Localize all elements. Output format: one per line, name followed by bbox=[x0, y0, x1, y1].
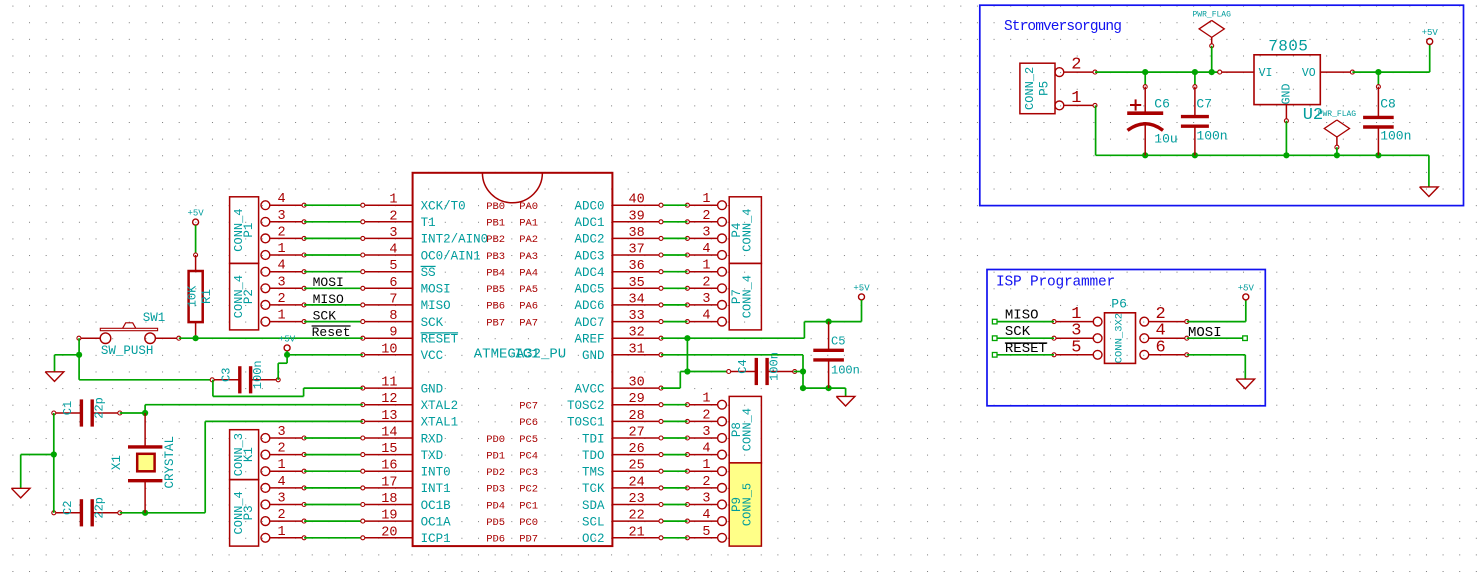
connector P8 (CONN_4) bbox=[729, 396, 761, 463]
connector P5 (CONN_2) bbox=[1020, 63, 1055, 113]
7805 VI pin bbox=[1220, 71, 1254, 73]
wire MISO bbox=[997, 321, 1054, 323]
wire AREF branch down to AVCC and C4 bbox=[686, 338, 688, 371]
svg-text:2: 2 bbox=[702, 209, 710, 224]
svg-text:30: 30 bbox=[629, 376, 645, 391]
svg-text:TXD: TXD bbox=[421, 449, 444, 463]
svg-text:PD5: PD5 bbox=[486, 517, 505, 529]
svg-text:23: 23 bbox=[629, 492, 645, 507]
svg-text:PB1: PB1 bbox=[486, 218, 505, 230]
svg-text:6: 6 bbox=[1156, 338, 1166, 357]
svg-text:PC0: PC0 bbox=[519, 517, 538, 529]
svg-text:SW1: SW1 bbox=[143, 311, 166, 325]
capacitor C7 100n bbox=[1194, 72, 1196, 87]
svg-text:33: 33 bbox=[629, 309, 645, 324]
capacitor C6 10u electrolytic bbox=[1144, 72, 1146, 87]
sheet box Stromversorgung bbox=[980, 5, 1464, 205]
svg-text:4: 4 bbox=[278, 259, 286, 274]
svg-text:OC0/AIN1: OC0/AIN1 bbox=[421, 249, 481, 263]
wire SW1 left to gnd and C3 bbox=[78, 338, 80, 355]
svg-text:C2: C2 bbox=[61, 501, 75, 515]
capacitor C4 100n bbox=[729, 371, 757, 373]
svg-text:PD2: PD2 bbox=[486, 467, 505, 479]
wires P4 to IC bbox=[661, 204, 687, 206]
svg-text:+5V: +5V bbox=[1238, 283, 1255, 293]
svg-text:26: 26 bbox=[629, 442, 645, 457]
svg-text:MOSI: MOSI bbox=[1188, 325, 1222, 341]
svg-text:16: 16 bbox=[381, 459, 397, 474]
svg-text:PB5: PB5 bbox=[486, 284, 505, 296]
svg-text:PA4: PA4 bbox=[519, 268, 538, 280]
svg-text:CRYSTAL: CRYSTAL bbox=[163, 436, 177, 489]
svg-text:PD1: PD1 bbox=[486, 450, 505, 462]
power +5V right of IC bbox=[859, 294, 865, 300]
svg-text:20: 20 bbox=[381, 525, 397, 540]
svg-text:PWR_FLAG: PWR_FLAG bbox=[1318, 110, 1357, 119]
connector P4 (CONN_4) bbox=[729, 197, 761, 264]
svg-text:INT0: INT0 bbox=[421, 466, 451, 480]
svg-text:P5: P5 bbox=[1038, 81, 1052, 96]
svg-text:PC7: PC7 bbox=[519, 401, 538, 413]
svg-text:PC1: PC1 bbox=[519, 500, 538, 512]
wire GND pin 31 to C4/C5 ground bbox=[661, 354, 803, 356]
svg-text:MOSI: MOSI bbox=[421, 283, 451, 297]
svg-text:4: 4 bbox=[278, 192, 286, 207]
svg-text:2: 2 bbox=[389, 209, 397, 224]
connector P1 (CONN_4) bbox=[230, 197, 259, 264]
svg-text:C4: C4 bbox=[736, 359, 750, 373]
svg-text:3: 3 bbox=[278, 425, 286, 440]
wire VO to +5V bbox=[1352, 71, 1429, 73]
capacitor C5 100n bbox=[813, 349, 844, 352]
svg-text:ADC1: ADC1 bbox=[574, 216, 604, 230]
svg-text:PC5: PC5 bbox=[519, 434, 538, 446]
svg-text:PA3: PA3 bbox=[519, 251, 538, 263]
capacitor C8 100n bbox=[1377, 72, 1379, 87]
svg-text:CONN_4: CONN_4 bbox=[740, 275, 754, 318]
svg-text:13: 13 bbox=[381, 409, 397, 424]
P6 left pins 1,3,5 bbox=[1054, 321, 1093, 323]
svg-text:PA2: PA2 bbox=[519, 234, 538, 246]
svg-text:2: 2 bbox=[702, 408, 710, 423]
svg-text:SCK: SCK bbox=[313, 308, 337, 323]
svg-text:P6: P6 bbox=[1111, 297, 1127, 312]
wires P1 to IC bbox=[304, 204, 363, 206]
svg-text:7805: 7805 bbox=[1268, 37, 1308, 55]
power +5V near C3 bbox=[284, 345, 290, 351]
svg-text:+5V: +5V bbox=[279, 334, 296, 344]
svg-text:22p: 22p bbox=[93, 497, 107, 519]
svg-text:3: 3 bbox=[278, 492, 286, 507]
ground near SW1 bbox=[45, 372, 64, 382]
power +5V output bbox=[1427, 39, 1433, 45]
svg-text:10: 10 bbox=[381, 342, 397, 357]
svg-text:C1: C1 bbox=[61, 401, 75, 415]
ground ISP bbox=[1236, 379, 1255, 389]
svg-text:2: 2 bbox=[278, 292, 286, 307]
capacitor C3 100n bbox=[212, 379, 240, 381]
svg-text:OC1B: OC1B bbox=[421, 499, 452, 513]
svg-text:VO: VO bbox=[1302, 67, 1316, 80]
svg-text:4: 4 bbox=[389, 243, 397, 258]
svg-text:17: 17 bbox=[381, 475, 397, 490]
svg-text:GND: GND bbox=[421, 382, 444, 396]
svg-text:CONN_2: CONN_2 bbox=[1023, 67, 1037, 110]
svg-text:VCC: VCC bbox=[421, 349, 444, 363]
wires P2 to IC bbox=[304, 271, 363, 273]
ground of power section bbox=[1428, 155, 1430, 187]
svg-text:100n: 100n bbox=[831, 364, 860, 378]
svg-text:CONN_4: CONN_4 bbox=[740, 208, 754, 251]
svg-text:4: 4 bbox=[702, 508, 710, 523]
svg-text:2: 2 bbox=[278, 225, 286, 240]
hierarchical label MISO bbox=[992, 319, 997, 324]
wire P5 pin2 to VI rail bbox=[1095, 71, 1220, 73]
svg-text:PD4: PD4 bbox=[486, 500, 505, 512]
wire reset net SW1 to IC pin 9 bbox=[179, 337, 363, 339]
capacitor C1 22p bbox=[54, 412, 82, 414]
svg-text:PC4: PC4 bbox=[519, 450, 538, 462]
svg-text:PB4: PB4 bbox=[486, 268, 505, 280]
svg-text:XTAL2: XTAL2 bbox=[421, 399, 459, 413]
svg-text:5: 5 bbox=[1071, 338, 1081, 357]
wire XTAL1 net bbox=[142, 510, 148, 516]
7805 VO pin bbox=[1320, 71, 1352, 73]
hierarchical label SCK bbox=[992, 336, 997, 341]
svg-text:100n: 100n bbox=[1380, 128, 1411, 143]
wire C3 left to IC GND pin 11 bbox=[212, 380, 214, 397]
svg-text:35: 35 bbox=[629, 276, 645, 291]
svg-text:2: 2 bbox=[278, 442, 286, 457]
svg-text:3: 3 bbox=[702, 292, 710, 307]
svg-text:R1: R1 bbox=[200, 289, 214, 304]
svg-text:1: 1 bbox=[702, 259, 710, 274]
svg-text:SS: SS bbox=[421, 266, 436, 280]
wire +5V down to C3 right pin bbox=[286, 355, 288, 363]
svg-text:IC1: IC1 bbox=[514, 347, 539, 363]
svg-text:38: 38 bbox=[629, 226, 645, 241]
svg-text:SCK: SCK bbox=[421, 316, 444, 330]
svg-text:GND: GND bbox=[1281, 84, 1294, 105]
svg-text:19: 19 bbox=[381, 509, 397, 524]
svg-text:SCL: SCL bbox=[582, 515, 605, 529]
svg-text:OC2: OC2 bbox=[582, 532, 605, 546]
svg-text:21: 21 bbox=[629, 525, 645, 540]
ground right of C5 bbox=[836, 396, 855, 406]
wires P8 to IC bbox=[661, 404, 687, 406]
svg-text:PB6: PB6 bbox=[486, 301, 505, 313]
svg-text:6: 6 bbox=[389, 276, 397, 291]
connector P3 (CONN_4) bbox=[230, 480, 259, 546]
svg-text:1: 1 bbox=[702, 458, 710, 473]
svg-text:22p: 22p bbox=[93, 397, 107, 419]
svg-text:ADC0: ADC0 bbox=[574, 200, 604, 214]
connector K1 (CONN_3) bbox=[230, 430, 259, 480]
svg-text:P3: P3 bbox=[242, 505, 256, 520]
svg-text:PD7: PD7 bbox=[519, 534, 538, 546]
svg-text:SDA: SDA bbox=[582, 499, 605, 513]
svg-text:+5V: +5V bbox=[1422, 28, 1439, 38]
wire XTAL2 net bbox=[142, 410, 148, 416]
svg-text:28: 28 bbox=[629, 409, 645, 424]
connector P2 (CONN_4) bbox=[230, 263, 259, 330]
svg-text:XCK/T0: XCK/T0 bbox=[421, 200, 466, 214]
svg-text:ADC2: ADC2 bbox=[574, 233, 604, 247]
svg-text:1: 1 bbox=[278, 309, 286, 324]
wires K1 to IC bbox=[304, 437, 363, 439]
svg-text:5: 5 bbox=[702, 525, 710, 540]
svg-text:5: 5 bbox=[389, 259, 397, 274]
svg-text:TDI: TDI bbox=[582, 432, 605, 446]
svg-text:39: 39 bbox=[629, 209, 645, 224]
svg-text:PA7: PA7 bbox=[519, 317, 538, 329]
svg-text:2: 2 bbox=[278, 508, 286, 523]
switch SW1 SW_PUSH bbox=[100, 333, 111, 344]
wire P6 pin4 MOSI bbox=[1187, 337, 1243, 339]
svg-text:ISP Programmer: ISP Programmer bbox=[996, 274, 1115, 290]
svg-text:1: 1 bbox=[389, 193, 397, 208]
svg-text:2: 2 bbox=[1071, 56, 1081, 75]
wire C2 to crystal bbox=[120, 512, 145, 514]
svg-text:36: 36 bbox=[629, 259, 645, 274]
wire C1 to crystal bbox=[120, 412, 145, 414]
power +5V above R1 bbox=[193, 219, 199, 225]
svg-text:PA5: PA5 bbox=[519, 284, 538, 296]
svg-text:29: 29 bbox=[629, 392, 645, 407]
svg-text:ADC5: ADC5 bbox=[574, 283, 604, 297]
P6 right pins 2,4,6 bbox=[1149, 321, 1187, 323]
svg-text:3: 3 bbox=[702, 425, 710, 440]
wire +5V to VCC pin 10 bbox=[286, 351, 288, 355]
svg-text:PA6: PA6 bbox=[519, 301, 538, 313]
svg-text:+5V: +5V bbox=[853, 283, 870, 293]
wire C1/C2 left vertical to gnd bbox=[53, 413, 55, 513]
svg-text:11: 11 bbox=[381, 376, 397, 391]
hierarchical label RESET bbox=[992, 353, 997, 358]
svg-text:TCK: TCK bbox=[582, 482, 605, 496]
svg-text:C7: C7 bbox=[1196, 96, 1212, 111]
svg-text:PD0: PD0 bbox=[486, 434, 505, 446]
svg-text:AREF: AREF bbox=[574, 333, 604, 347]
svg-text:1: 1 bbox=[702, 392, 710, 407]
svg-text:VI: VI bbox=[1259, 67, 1273, 80]
svg-text:7: 7 bbox=[389, 292, 397, 307]
svg-text:AVCC: AVCC bbox=[574, 382, 604, 396]
svg-text:10u: 10u bbox=[1154, 132, 1177, 147]
svg-text:C3: C3 bbox=[219, 368, 233, 382]
svg-text:T1: T1 bbox=[421, 216, 436, 230]
svg-text:MOSI: MOSI bbox=[313, 275, 344, 290]
svg-text:4: 4 bbox=[278, 475, 286, 490]
junction R1/reset wire bbox=[193, 335, 199, 341]
svg-text:TOSC1: TOSC1 bbox=[567, 416, 605, 430]
svg-text:12: 12 bbox=[381, 392, 397, 407]
svg-text:15: 15 bbox=[381, 442, 397, 457]
svg-text:P1: P1 bbox=[242, 223, 256, 238]
svg-text:PD6: PD6 bbox=[486, 534, 505, 546]
svg-text:31: 31 bbox=[629, 342, 645, 357]
svg-text:SW_PUSH: SW_PUSH bbox=[101, 344, 154, 358]
svg-text:K1: K1 bbox=[242, 447, 256, 462]
svg-text:34: 34 bbox=[629, 292, 645, 307]
connector P6 CONN_3X2 bbox=[1105, 313, 1136, 364]
connector P7 (CONN_4) bbox=[729, 263, 761, 330]
svg-text:TOSC2: TOSC2 bbox=[567, 399, 605, 413]
wire P5 pin1 to gnd rail bbox=[1095, 71, 1097, 73]
svg-text:PB0: PB0 bbox=[486, 201, 505, 213]
svg-text:ADC3: ADC3 bbox=[574, 249, 604, 263]
svg-text:25: 25 bbox=[629, 459, 645, 474]
wires P9 to IC bbox=[661, 470, 687, 472]
IC ATMEGA32_PU body bbox=[413, 173, 613, 546]
svg-text:2: 2 bbox=[702, 475, 710, 490]
svg-text:2: 2 bbox=[702, 275, 710, 290]
svg-text:CONN_3X2: CONN_3X2 bbox=[1114, 313, 1126, 363]
svg-text:3: 3 bbox=[702, 225, 710, 240]
svg-text:40: 40 bbox=[629, 193, 645, 208]
crystal X1 bbox=[144, 413, 146, 447]
svg-text:4: 4 bbox=[702, 442, 710, 457]
svg-text:14: 14 bbox=[381, 426, 397, 441]
PWR_FLAG on input rail bbox=[1199, 20, 1224, 37]
svg-text:PB3: PB3 bbox=[486, 251, 505, 263]
svg-text:MISO: MISO bbox=[313, 292, 344, 307]
svg-text:PB7: PB7 bbox=[486, 317, 505, 329]
svg-text:X1: X1 bbox=[110, 455, 124, 470]
svg-text:PD3: PD3 bbox=[486, 484, 505, 496]
svg-text:Stromversorgung: Stromversorgung bbox=[1004, 19, 1121, 35]
svg-text:8: 8 bbox=[389, 309, 397, 324]
7805 GND pin bbox=[1285, 105, 1287, 121]
svg-text:RXD: RXD bbox=[421, 432, 444, 446]
svg-text:PA1: PA1 bbox=[519, 218, 538, 230]
svg-text:MISO: MISO bbox=[421, 299, 451, 313]
svg-text:1: 1 bbox=[278, 242, 286, 257]
svg-text:RESET: RESET bbox=[421, 333, 459, 347]
svg-text:ICP1: ICP1 bbox=[421, 532, 451, 546]
svg-text:PC3: PC3 bbox=[519, 467, 538, 479]
capacitor C2 22p bbox=[54, 512, 82, 514]
svg-text:GND: GND bbox=[582, 349, 605, 363]
svg-text:TMS: TMS bbox=[582, 466, 605, 480]
svg-text:1: 1 bbox=[278, 458, 286, 473]
svg-text:CONN_4: CONN_4 bbox=[740, 408, 754, 451]
svg-text:PC2: PC2 bbox=[519, 484, 538, 496]
svg-text:TDO: TDO bbox=[582, 449, 605, 463]
svg-text:ADC6: ADC6 bbox=[574, 299, 604, 313]
wires P7 to IC bbox=[661, 271, 687, 273]
wire RESET bbox=[997, 354, 1054, 356]
svg-text:9: 9 bbox=[389, 326, 397, 341]
IC right pins 21-40 bbox=[612, 204, 661, 206]
svg-text:XTAL1: XTAL1 bbox=[421, 416, 459, 430]
svg-text:24: 24 bbox=[629, 475, 645, 490]
svg-text:1: 1 bbox=[702, 192, 710, 207]
svg-text:+5V: +5V bbox=[187, 209, 204, 219]
svg-text:3: 3 bbox=[278, 275, 286, 290]
svg-text:PA0: PA0 bbox=[519, 201, 538, 213]
svg-text:1: 1 bbox=[278, 525, 286, 540]
svg-text:INT2/AIN0: INT2/AIN0 bbox=[421, 233, 489, 247]
hierarchical label MOSI bbox=[1243, 336, 1248, 341]
wire P6 pin6 to gnd bbox=[1187, 354, 1246, 356]
svg-text:PB2: PB2 bbox=[486, 234, 505, 246]
svg-text:37: 37 bbox=[629, 243, 645, 258]
PWR_FLAG on gnd rail bbox=[1324, 120, 1349, 137]
svg-text:C6: C6 bbox=[1154, 96, 1170, 111]
wire P6 pin2 to +5V bbox=[1187, 321, 1246, 323]
svg-text:CONN_5: CONN_5 bbox=[740, 483, 754, 526]
svg-text:3: 3 bbox=[278, 209, 286, 224]
wire SCK bbox=[997, 337, 1054, 339]
svg-text:3: 3 bbox=[702, 492, 710, 507]
wires P3 to IC bbox=[304, 487, 363, 489]
regulator U2 7805 bbox=[1254, 55, 1320, 105]
IC left pins 1-20 bbox=[363, 204, 413, 206]
svg-text:INT1: INT1 bbox=[421, 482, 451, 496]
svg-text:100n: 100n bbox=[767, 352, 781, 381]
svg-text:22: 22 bbox=[629, 509, 645, 524]
svg-text:C5: C5 bbox=[831, 334, 845, 348]
svg-text:3: 3 bbox=[389, 226, 397, 241]
svg-text:18: 18 bbox=[381, 492, 397, 507]
connector P9 (CONN_5) bbox=[729, 463, 761, 546]
svg-text:ADC7: ADC7 bbox=[574, 316, 604, 330]
svg-text:4: 4 bbox=[702, 242, 710, 257]
svg-text:C8: C8 bbox=[1380, 96, 1396, 111]
svg-text:ADC4: ADC4 bbox=[574, 266, 604, 280]
svg-text:P2: P2 bbox=[242, 289, 256, 304]
svg-text:4: 4 bbox=[702, 309, 710, 324]
svg-text:100n: 100n bbox=[1196, 128, 1227, 143]
wire +5V to AREF pin 32 and C5 bbox=[861, 300, 863, 322]
svg-text:PC6: PC6 bbox=[519, 417, 538, 429]
svg-text:32: 32 bbox=[629, 326, 645, 341]
svg-text:1: 1 bbox=[1071, 89, 1081, 108]
power +5V ISP bbox=[1243, 294, 1249, 300]
resistor R1 10K bbox=[194, 253, 198, 257]
svg-text:100n: 100n bbox=[251, 360, 265, 389]
svg-text:PWR_FLAG: PWR_FLAG bbox=[1192, 10, 1231, 19]
svg-text:27: 27 bbox=[629, 426, 645, 441]
ground left of crystal bbox=[11, 488, 30, 498]
sheet box ISP Programmer bbox=[987, 270, 1265, 406]
wire +5V to R1 bbox=[195, 225, 197, 255]
svg-text:10K: 10K bbox=[186, 285, 200, 307]
svg-text:OC1A: OC1A bbox=[421, 515, 452, 529]
